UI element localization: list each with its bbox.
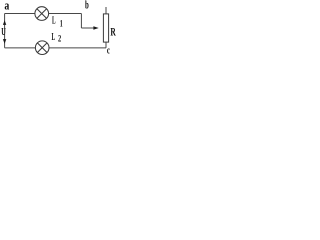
svg-text:a: a bbox=[4, 0, 9, 13]
svg-text:L: L bbox=[52, 16, 56, 27]
svg-text:1: 1 bbox=[60, 19, 63, 29]
svg-text:2: 2 bbox=[58, 33, 62, 43]
svg-text:L: L bbox=[52, 32, 56, 43]
svg-text:b: b bbox=[85, 0, 89, 12]
svg-text:c: c bbox=[107, 45, 110, 56]
svg-text:U: U bbox=[1, 27, 6, 38]
svg-text:R: R bbox=[110, 27, 116, 39]
